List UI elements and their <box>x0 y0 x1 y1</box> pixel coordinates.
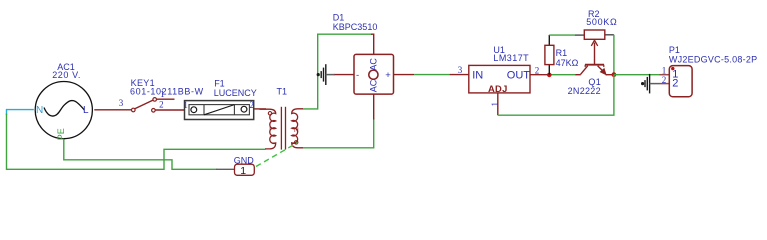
ground symbol at D1 minus pin <box>317 64 335 85</box>
resistor R1 <box>545 45 554 64</box>
wire green from ADJ right and up to junction <box>498 75 614 116</box>
wire red lead into P1 pin 1 <box>660 74 670 76</box>
svg-text:500KΩ: 500KΩ <box>586 17 617 27</box>
svg-text:2: 2 <box>662 75 667 85</box>
wire red lead D1 plus pin to output <box>394 74 415 76</box>
wire green D1 plus to U1 IN <box>414 74 449 76</box>
wire red lead from ground to D1 minus pin <box>335 74 355 76</box>
svg-text:P1: P1 <box>669 45 680 55</box>
wire N net green: down the far left, along bottom, up to transformer primary bottom <box>7 114 266 170</box>
wire green from T1 secondary bottom right to below D1 <box>303 119 374 148</box>
svg-text:1: 1 <box>183 100 188 110</box>
svg-text:3: 3 <box>458 65 463 75</box>
svg-text:I: I <box>269 127 271 134</box>
ground symbol at P1 pin 2 <box>641 74 660 94</box>
svg-text:2N2222: 2N2222 <box>568 86 601 96</box>
wire green from OUT junction to Q1 collector <box>549 74 576 76</box>
wire N net cyan from AC1 N pin going left <box>7 110 34 115</box>
wire red Q1 collector lead <box>576 74 581 76</box>
AC source AC1 <box>35 82 92 139</box>
svg-text:T1: T1 <box>277 87 288 97</box>
polarity dot T1 secondary <box>295 141 298 144</box>
wire red lead U1 pin 2 OUT to junction <box>530 74 549 76</box>
svg-text:N: N <box>294 127 299 134</box>
svg-text:OUT: OUT <box>507 69 531 81</box>
svg-text:IN: IN <box>472 69 483 81</box>
transistor Q1 <box>581 65 606 75</box>
svg-text:L: L <box>83 105 89 116</box>
wire red lead D1 bottom AC pin <box>373 94 375 120</box>
svg-text:LUCENCY: LUCENCY <box>214 88 257 98</box>
svg-text:AC: AC <box>369 79 379 92</box>
svg-text:47KΩ: 47KΩ <box>556 58 579 68</box>
potentiometer R2 <box>584 30 605 65</box>
wire green from junction to P1 pin 1 <box>614 74 660 76</box>
svg-text:+: + <box>385 70 391 81</box>
fuse F1 <box>185 101 254 120</box>
svg-text:R1: R1 <box>556 48 568 58</box>
svg-text:1: 1 <box>490 102 500 107</box>
polarity dot T1 primary <box>268 112 271 115</box>
wire black R1 bottom lead <box>548 65 550 75</box>
wire green from T1 secondary top up and over to D1 top AC pin <box>303 34 372 109</box>
wire black R1 top lead <box>548 35 550 45</box>
bridge rectifier D1 <box>354 54 394 94</box>
svg-text:-: - <box>356 70 359 81</box>
wire grey lead R2 pin 2 <box>605 34 614 36</box>
wire green from R2 right down to emitter junction <box>613 35 615 75</box>
wire L net red from AC1 L pin to KEY1 pin 3 <box>94 109 131 111</box>
svg-text:ADJ: ADJ <box>488 83 508 94</box>
svg-text:GND: GND <box>234 156 255 166</box>
node junction dot at U1 OUT / R1 bottom <box>547 73 552 78</box>
svg-text:PE: PE <box>56 128 66 140</box>
transformer T1 <box>260 107 304 150</box>
switch KEY1 <box>132 98 175 113</box>
svg-text:LM317T: LM317T <box>493 53 529 63</box>
wire red U1 ADJ pin lead down <box>497 93 499 115</box>
wire red lead D1 top AC pin <box>371 34 374 54</box>
wire red lead from ground into P1 pin 2 <box>660 83 670 85</box>
wire grey lead into GND box <box>216 168 235 170</box>
svg-text:WJ2EDGVC-5.08-2P: WJ2EDGVC-5.08-2P <box>669 55 758 65</box>
svg-text:3: 3 <box>119 98 124 108</box>
svg-text:601-10211BB-W: 601-10211BB-W <box>130 87 204 97</box>
svg-text:KBPC3510: KBPC3510 <box>333 22 378 32</box>
regulator U1 <box>469 65 530 93</box>
svg-text:2: 2 <box>159 100 164 110</box>
svg-text:2: 2 <box>672 77 678 89</box>
svg-text:2: 2 <box>250 100 255 110</box>
svg-text:1: 1 <box>240 165 246 177</box>
svg-text:220 V.: 220 V. <box>52 70 81 80</box>
wire grey lead into R2 pin 1 <box>575 34 585 36</box>
node junction dot at Q1 emitter / R2 / ADJ / P1 <box>612 72 617 77</box>
ground net label GND box <box>235 164 255 177</box>
wire red from F1 pin 2 to T1 primary top <box>254 108 266 110</box>
svg-text:2: 2 <box>535 65 540 75</box>
wire green R1 top to R2 left <box>549 34 574 36</box>
svg-text:1: 1 <box>662 65 667 75</box>
wire red lead into U1 pin 3 <box>450 74 469 76</box>
svg-text:F1: F1 <box>214 79 225 89</box>
wire dashed green from GND to T1 secondary <box>256 143 298 167</box>
wire red from KEY1 pin 2 to F1 pin 1 <box>155 109 185 111</box>
svg-text:AC: AC <box>369 58 379 71</box>
svg-text:N: N <box>36 105 43 116</box>
wire PE net green from AC1 PE pin down and right to GND <box>64 139 217 170</box>
connector P1 <box>669 66 692 97</box>
wire red Q1 emitter lead to junction <box>606 74 613 76</box>
